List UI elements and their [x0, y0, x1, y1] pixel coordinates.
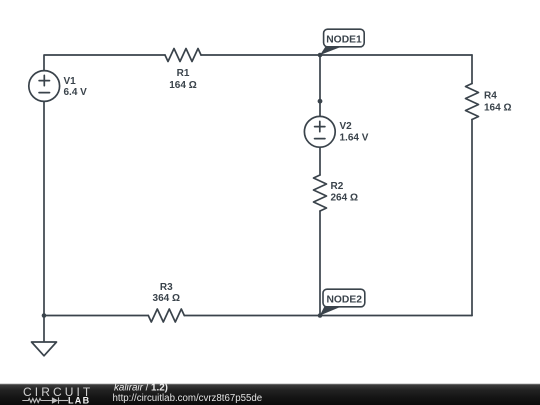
svg-text:V2: V2 [340, 121, 353, 132]
svg-text:R2: R2 [331, 181, 344, 192]
svg-text:1.64 V: 1.64 V [340, 133, 369, 144]
svg-text:V1: V1 [64, 76, 77, 87]
svg-text:http://circuitlab.com/cvrz8t67: http://circuitlab.com/cvrz8t67p55de [113, 393, 263, 404]
svg-text:364 Ω: 364 Ω [153, 293, 180, 304]
svg-text:NODE1: NODE1 [326, 35, 362, 46]
svg-text:164 Ω: 164 Ω [484, 103, 511, 114]
svg-text:R4: R4 [484, 91, 497, 102]
svg-text:6.4 V: 6.4 V [64, 87, 88, 98]
svg-text:NODE2: NODE2 [326, 295, 362, 306]
svg-text:R3: R3 [160, 282, 173, 293]
svg-text:164 Ω: 164 Ω [169, 80, 196, 91]
svg-text:LAB: LAB [68, 396, 90, 405]
svg-text:264 Ω: 264 Ω [331, 193, 358, 204]
svg-text:R1: R1 [177, 68, 190, 79]
